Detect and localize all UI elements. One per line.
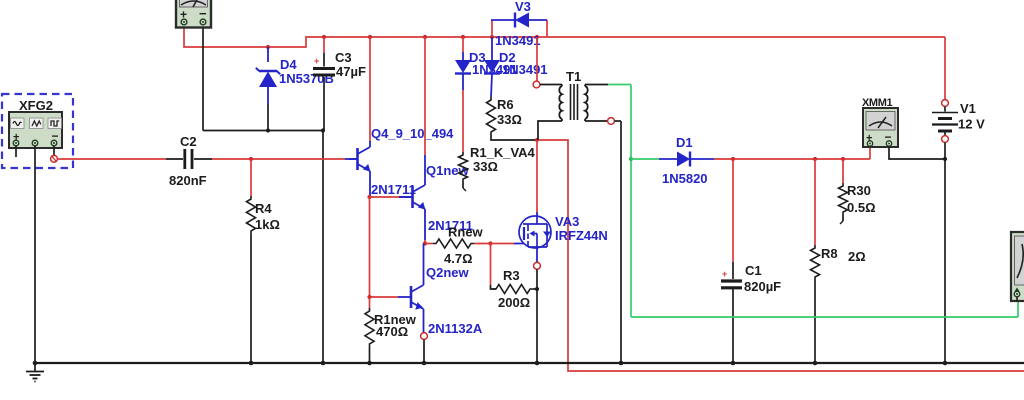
wire Q2new base lead	[370, 296, 399, 298]
svg-text:R30: R30	[847, 183, 871, 198]
node junction D3 on rail	[461, 35, 465, 39]
wire Q2new collector up to Rnew node	[423, 244, 425, 286]
resistor R1new	[365, 308, 374, 347]
ground bus	[35, 362, 1024, 364]
svg-text:C1: C1	[745, 263, 762, 278]
svg-text:IRFZ44N: IRFZ44N	[555, 228, 608, 243]
wire drain node to bottom red rail	[537, 140, 1024, 371]
green return wire to scope	[631, 316, 1018, 318]
zener diode D4	[267, 47, 269, 62]
MOSFET VA3 IRFZ44N	[519, 216, 551, 248]
svg-text:1N5820: 1N5820	[662, 171, 708, 186]
ground symbol	[34, 363, 36, 371]
wire Q2new emitter to ground bus	[423, 340, 425, 364]
diode V3 1N3491 bridging rail	[491, 20, 493, 37]
svg-text:Rnew: Rnew	[448, 225, 484, 240]
diode D2 1N3491	[491, 37, 493, 60]
junction Rnew left node	[423, 241, 427, 245]
diode D1 1N5820	[659, 158, 677, 160]
junction R30 tap	[841, 157, 845, 161]
wire V1 minus to ground bus	[944, 143, 946, 364]
wire Q2new emitter down	[423, 309, 425, 332]
wire T1 primary bottom to drain node	[538, 121, 562, 140]
resistor R8 2ohm	[814, 159, 816, 245]
wire R4 top	[250, 159, 252, 196]
node junction D2/V3 on rail	[490, 35, 494, 39]
wire Q1new collector to rail	[424, 37, 426, 155]
wire source to ground bus	[536, 269, 538, 363]
capacitor C2 plates	[183, 149, 186, 169]
svg-text:200Ω: 200Ω	[498, 295, 530, 310]
wire R3 right lead to source column	[533, 288, 537, 290]
wire C1 to ground bus	[732, 289, 734, 363]
transformer T1 primary feed from rail	[536, 37, 538, 81]
oscilloscope instrument bottom right (clipped)	[1011, 232, 1024, 301]
node junction D4 on rail	[266, 45, 270, 49]
svg-text:+: +	[722, 269, 727, 279]
svg-text:47µF: 47µF	[336, 64, 366, 79]
wire D3 to R1_K_VA4	[462, 90, 464, 152]
battery V1 12V	[942, 100, 949, 107]
junction C1 tap	[731, 157, 735, 161]
svg-text:C3: C3	[335, 50, 352, 65]
svg-text:V1: V1	[960, 101, 976, 116]
resistor R1_K_VA4	[459, 152, 468, 182]
junction R3/source	[535, 287, 539, 291]
wire T1 secondary bottom	[585, 120, 607, 122]
junction green node to D1	[629, 157, 633, 161]
svg-text:R6: R6	[497, 97, 514, 112]
wire R6 bottom to drain node	[491, 135, 537, 140]
node junction Q1new collector on rail	[423, 35, 427, 39]
svg-text:0.5Ω: 0.5Ω	[847, 200, 876, 215]
svg-text:+: +	[314, 56, 319, 66]
wire node line y=130 to C3 ground column	[203, 130, 323, 132]
terminal circle T1 secondary bottom	[608, 118, 615, 125]
svg-text:R4: R4	[255, 201, 272, 216]
resistor R6	[487, 97, 496, 135]
junction drain node	[535, 138, 539, 142]
wire green to D1	[631, 158, 659, 160]
svg-text:470Ω: 470Ω	[376, 324, 408, 339]
svg-text:33Ω: 33Ω	[497, 112, 522, 127]
junction D4 bottom	[266, 128, 270, 132]
svg-text:820µF: 820µF	[744, 279, 781, 294]
junction R4 tap	[249, 157, 253, 161]
junction Q4 emitter node	[367, 195, 371, 199]
svg-text:Q4_9_10_494: Q4_9_10_494	[371, 126, 454, 141]
wire signal line to C2	[58, 158, 167, 160]
resistor Rnew leads	[425, 243, 433, 245]
svg-text:1N5370B: 1N5370B	[279, 71, 334, 86]
svg-text:2N1132A: 2N1132A	[428, 321, 483, 336]
resistor R3	[493, 285, 533, 294]
wire VA3 drain from drain node	[536, 140, 538, 212]
wire Q4 collector to rail	[369, 37, 371, 141]
diode D3 1N3491	[462, 37, 464, 52]
transformer T1 primary winding	[559, 86, 562, 119]
wire R1new top	[369, 297, 371, 308]
wire VA3 gate lead	[491, 243, 515, 245]
svg-text:VA3: VA3	[555, 214, 579, 229]
transistor Q4 2N1711	[349, 147, 370, 171]
wire emitter node to Q1new base	[370, 196, 400, 198]
function generator XFG2 body	[9, 112, 62, 148]
wire R1new to ground bus	[369, 347, 371, 363]
svg-text:4.7Ω: 4.7Ω	[444, 251, 473, 266]
node junction Q4 collector on rail	[368, 35, 372, 39]
terminal circle XFG2 output	[51, 155, 58, 162]
wire VA3 source down	[536, 248, 538, 262]
svg-text:T1: T1	[566, 69, 581, 84]
svg-text:XFG2: XFG2	[19, 98, 53, 113]
junction R8 tap	[813, 157, 817, 161]
junction gate node	[488, 241, 492, 245]
svg-text:R1_K_VA4: R1_K_VA4	[470, 145, 536, 160]
svg-text:XMM1: XMM1	[862, 97, 892, 109]
terminal circle VA3 source	[534, 262, 541, 269]
resistor R30 0.5ohm	[842, 159, 844, 183]
resistor Rnew	[433, 239, 474, 248]
wire Q1new emitter down to Rnew node	[424, 209, 426, 240]
wire C3/ground column down to ground bus	[322, 131, 324, 364]
svg-text:Q2new: Q2new	[426, 265, 470, 280]
terminal circle Q2new emitter	[421, 333, 428, 340]
svg-text:1N3491: 1N3491	[502, 62, 548, 77]
junction Q2new base node	[367, 295, 371, 299]
wire signal line C2 to Q4 base	[212, 158, 345, 160]
wire top rail from ammeter + terminal	[184, 28, 945, 48]
svg-text:R8: R8	[821, 246, 838, 261]
wire R4 to ground bus	[250, 234, 252, 363]
multimeter XMM1	[863, 108, 898, 147]
wire green secondary loop down	[630, 85, 632, 318]
svg-text:1kΩ: 1kΩ	[255, 217, 280, 232]
node junction T1 primary on rail	[535, 35, 539, 39]
capacitor C2 leads	[166, 158, 183, 160]
svg-text:C2: C2	[180, 134, 197, 149]
node junction C3 on rail	[322, 35, 326, 39]
svg-text:1N3491: 1N3491	[495, 33, 541, 48]
transistor Q2new 2N1132A	[398, 285, 424, 309]
wire T1 secondary top	[585, 84, 608, 86]
function generator XFG2 selection box (dashed)	[2, 94, 73, 168]
transistor Q1new 2N1711	[399, 185, 425, 209]
svg-text:33Ω: 33Ω	[473, 159, 498, 174]
svg-text:2N1711: 2N1711	[371, 182, 416, 197]
wire Q4 emitter down	[369, 171, 371, 197]
svg-text:V3: V3	[515, 0, 531, 14]
wire emitter node down to Q2new base node	[369, 197, 371, 297]
transformer T1 secondary winding	[585, 86, 588, 119]
svg-text:R3: R3	[503, 268, 520, 283]
resistor R4	[247, 196, 256, 234]
terminal circle T1 primary top	[533, 81, 540, 88]
wire XFG2 common to ground	[34, 146, 36, 363]
svg-text:820nF: 820nF	[169, 173, 207, 188]
wire ammeter minus lead down	[202, 28, 204, 131]
capacitor C1 820uF	[732, 159, 734, 262]
wire V1 feed down right side	[944, 37, 946, 100]
wire XMM1 minus to V1 column	[889, 147, 945, 159]
wire gate node down to R3	[490, 244, 492, 286]
capacitor C3 plates	[313, 67, 335, 70]
svg-text:2Ω: 2Ω	[848, 249, 866, 264]
wire secondary bottom to ground bus	[620, 121, 622, 363]
wire XFG2 plus stub	[15, 146, 17, 157]
svg-text:12 V: 12 V	[958, 117, 985, 132]
svg-text:D1: D1	[676, 135, 693, 150]
wire D1 output rail to XMM1	[714, 158, 870, 160]
wire XFG2 minus to output node	[53, 146, 55, 155]
capacitor C3 feed	[323, 37, 325, 53]
svg-text:D4: D4	[280, 57, 297, 72]
junction corner at C3 column	[321, 128, 325, 132]
ammeter XMM (top, clipped)	[176, 0, 211, 28]
transformer T1 core lines	[570, 84, 572, 120]
